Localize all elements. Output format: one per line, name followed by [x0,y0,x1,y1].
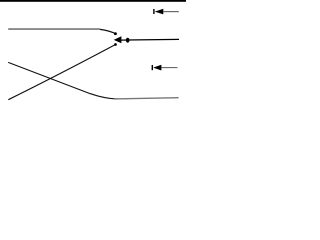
junction dot on middle wire [126,38,130,43]
wire: descending diagonal flattening out [8,62,118,99]
tick bar of upper-right arrow symbol [153,9,154,14]
arrowhead pointing left at middle node [114,36,122,43]
top rule [0,0,186,2]
wire: rising diagonal from lower-left to node B [8,45,115,100]
wire: tail of upper-right arrow symbol [163,11,179,13]
tick bar of middle-right arrow symbol [152,65,153,70]
node B (dot2) [114,43,117,46]
arrowhead of upper-right arrow symbol [155,9,164,15]
arrowhead of middle-right arrow symbol [153,65,161,71]
wire: upper-left horizontal segment [8,28,100,30]
wire: tail of middle-right arrow symbol [161,67,177,69]
wire: middle horizontal from arrowhead to right [121,38,179,41]
wire: short diagonal down to node A [100,29,115,33]
wire: bottom horizontal tail [114,98,179,99]
node A (dot1) [114,32,117,35]
